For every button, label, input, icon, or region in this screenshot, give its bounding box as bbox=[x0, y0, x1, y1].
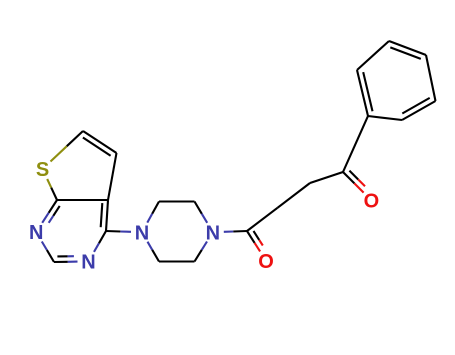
bond C4-N piperazine bbox=[106, 230, 120, 233]
bond Ck=O2 ketone carbonyl bbox=[343, 172, 354, 183]
svg-text:O: O bbox=[258, 251, 274, 273]
bond C5-C4a bbox=[108, 153, 117, 200]
bond N1-C2 bbox=[42, 242, 47, 251]
bond S-C6 bbox=[51, 146, 67, 161]
bond C-N piperazine bbox=[195, 250, 202, 262]
bond C7a-S bbox=[51, 188, 57, 200]
benzene bond R=B bbox=[402, 101, 436, 120]
bond C-C piperazine bottom bbox=[159, 260, 195, 262]
bond C4=C4a bbox=[106, 200, 108, 231]
benzene bond RT-R bbox=[426, 55, 436, 101]
benzene bond T=RT bbox=[389, 41, 426, 55]
benzene bond BL=L bbox=[357, 70, 368, 116]
bond N-C piperazine bbox=[148, 242, 153, 250]
bond Ck-phenyl bbox=[343, 116, 368, 172]
bond C6=C5 bbox=[83, 131, 117, 153]
bond C-N piperazine bbox=[195, 202, 202, 214]
bond N3-C4 bbox=[94, 243, 99, 252]
bond C9-Ca bbox=[247, 208, 278, 231]
bond Cb-Ck bbox=[310, 172, 343, 183]
benzene bond L-T bbox=[357, 41, 389, 70]
svg-text:N: N bbox=[206, 222, 220, 244]
bond N-C piperazine bbox=[147, 214, 152, 223]
bond Ca-Cb bbox=[278, 183, 311, 208]
bond C-C piperazine top bbox=[159, 200, 195, 202]
svg-text:O: O bbox=[364, 191, 380, 213]
bond C9=O1 amide carbonyl bbox=[247, 231, 255, 243]
bond C2=N3 bbox=[54, 261, 68, 263]
svg-text:N: N bbox=[29, 222, 43, 244]
bond C4a-C7a (fused edge) bbox=[57, 199, 108, 201]
svg-text:N: N bbox=[81, 252, 95, 274]
bond N-C(=O) amide bbox=[224, 230, 234, 232]
benzene bond B-BL bbox=[368, 116, 402, 120]
svg-text:N: N bbox=[135, 222, 149, 244]
svg-text:S: S bbox=[36, 159, 49, 181]
bond C7a=N1 bbox=[49, 200, 57, 213]
